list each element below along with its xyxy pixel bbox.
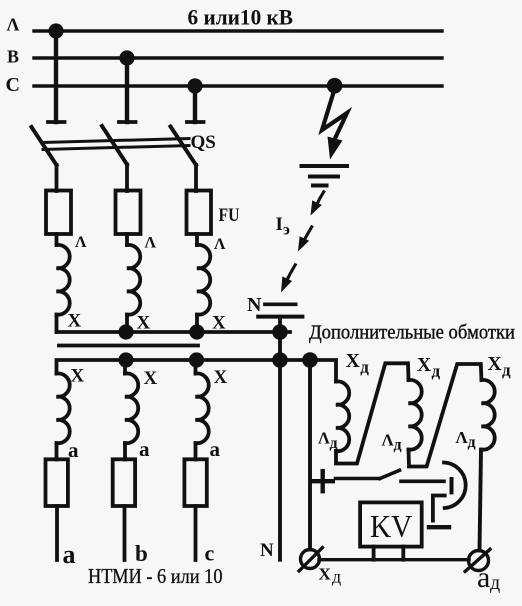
- svg-text:I: I: [276, 214, 283, 235]
- svg-text:a: a: [63, 540, 76, 569]
- svg-text:a: a: [210, 437, 221, 461]
- svg-text:Λ: Λ: [145, 235, 157, 252]
- svg-text:X: X: [214, 367, 228, 388]
- svg-text:Дополнительные обмотки: Дополнительные обмотки: [309, 322, 515, 344]
- svg-text:X: X: [212, 313, 226, 334]
- svg-text:a: a: [68, 438, 79, 462]
- svg-text:а: а: [477, 561, 490, 594]
- svg-text:FU: FU: [219, 205, 240, 226]
- svg-text:b: b: [135, 541, 148, 566]
- svg-text:д: д: [490, 572, 500, 594]
- svg-text:a: a: [139, 437, 150, 461]
- svg-text:Λ: Λ: [7, 15, 20, 35]
- svg-text:д: д: [432, 362, 441, 381]
- svg-text:Х: Х: [346, 351, 360, 372]
- svg-text:Λ: Λ: [318, 429, 330, 448]
- svg-text:6 или10 кВ: 6 или10 кВ: [188, 5, 294, 30]
- svg-text:э: э: [283, 221, 290, 238]
- svg-text:д: д: [360, 358, 369, 377]
- svg-text:д: д: [330, 435, 338, 452]
- svg-text:Λ: Λ: [214, 236, 226, 253]
- svg-text:Х: Х: [319, 565, 332, 584]
- svg-text:X: X: [144, 368, 158, 389]
- svg-text:N: N: [247, 294, 262, 316]
- svg-text:c: c: [205, 541, 215, 566]
- svg-text:N: N: [260, 540, 274, 561]
- svg-text:KV: KV: [370, 508, 412, 544]
- svg-text:X: X: [68, 311, 82, 332]
- svg-text:д: д: [394, 437, 402, 454]
- svg-text:Х: Х: [417, 355, 431, 376]
- svg-text:д: д: [468, 434, 476, 451]
- svg-text:Λ: Λ: [75, 234, 87, 251]
- svg-text:д: д: [502, 361, 511, 380]
- svg-text:C: C: [6, 74, 20, 96]
- svg-text:НТМИ - 6 или 10: НТМИ - 6 или 10: [88, 564, 223, 588]
- svg-text:Х: Х: [488, 354, 502, 375]
- svg-text:X: X: [71, 366, 85, 387]
- svg-text:QS: QS: [191, 132, 216, 153]
- svg-text:д: д: [332, 567, 341, 587]
- svg-text:X: X: [137, 313, 151, 334]
- svg-text:B: B: [7, 47, 19, 67]
